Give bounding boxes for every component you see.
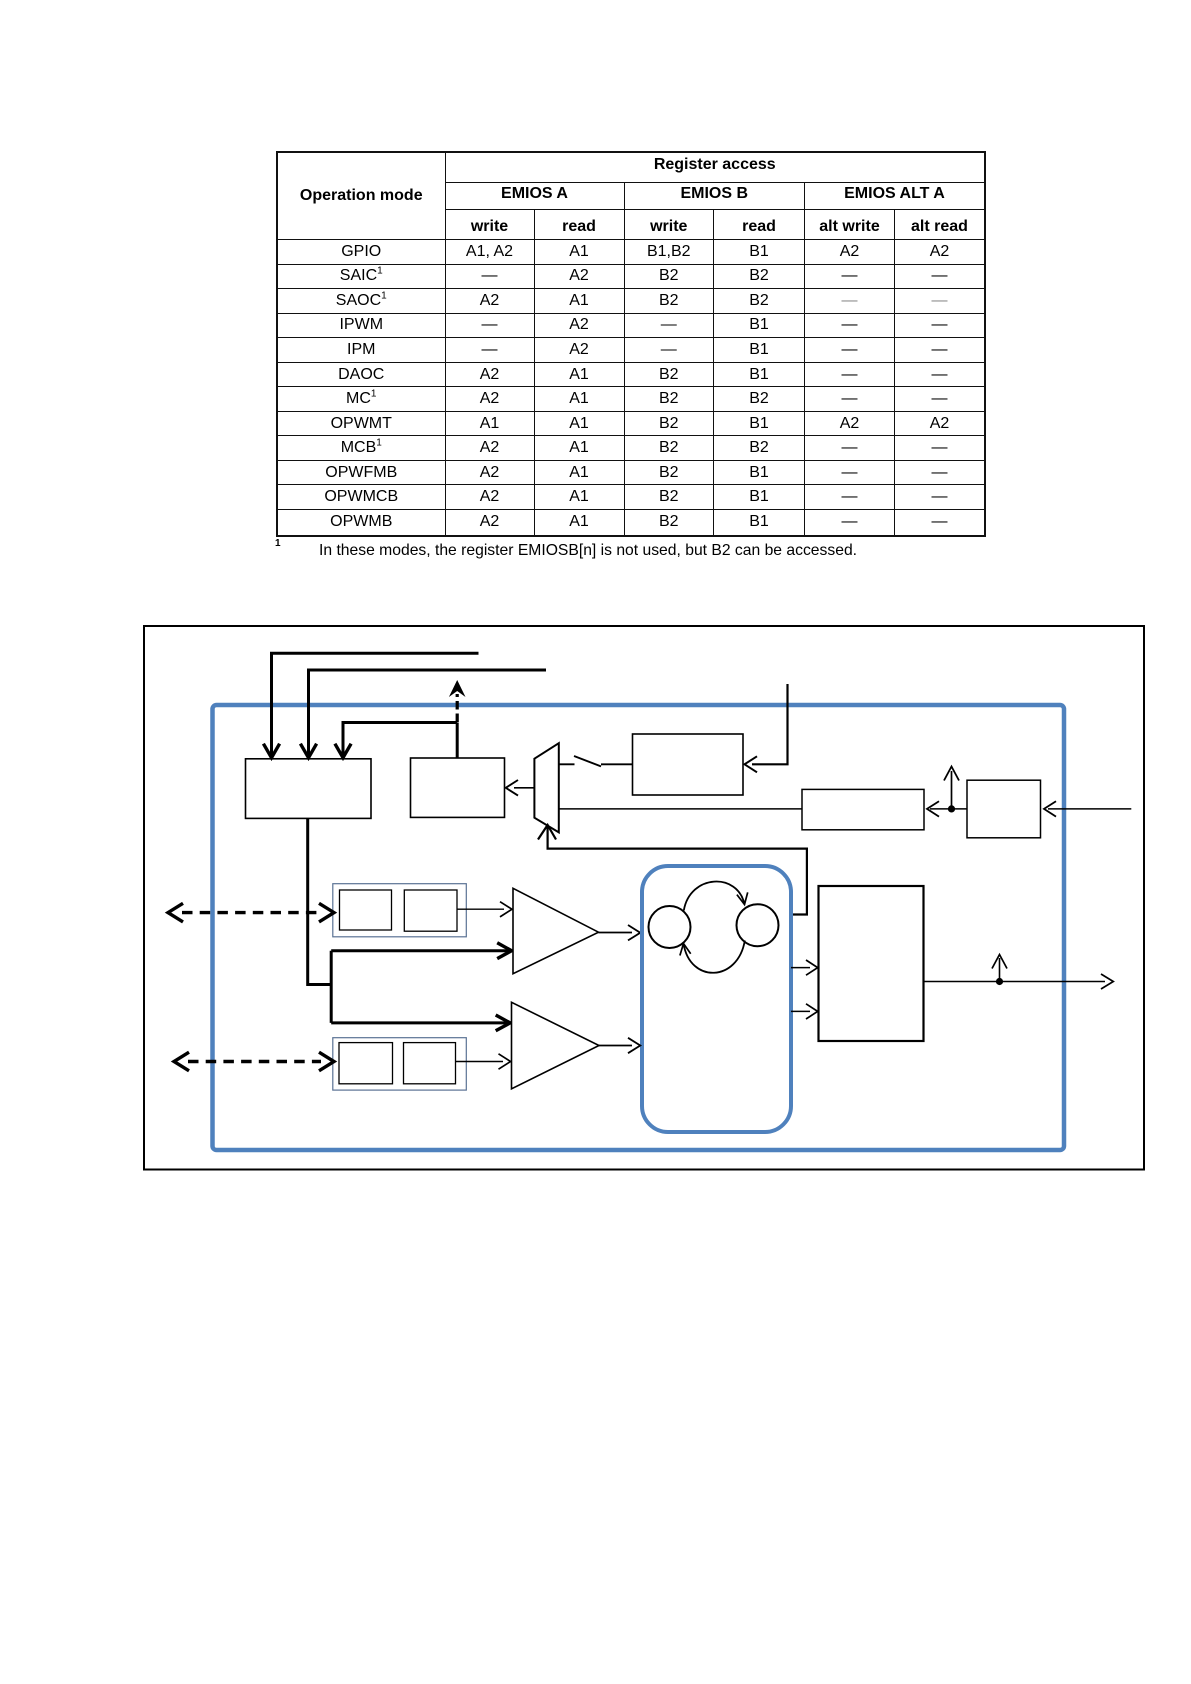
wire: top bus line 2 — [309, 670, 547, 756]
wire: lever to block C — [601, 763, 633, 765]
block A (registers) — [246, 759, 372, 819]
register pair 1 cell A2 — [404, 890, 457, 931]
footnote text — [319, 542, 857, 560]
arrow into comparator 2 lower input — [499, 1054, 511, 1069]
wire: mux output to block B — [514, 787, 534, 789]
arrow into block A (left) — [263, 744, 279, 758]
junction dot — [948, 805, 955, 812]
wire: state box to block F upper — [791, 967, 810, 969]
arrow into block E right edge — [1044, 801, 1056, 816]
register pair 2 outer — [333, 1038, 467, 1090]
register pair 1 outer — [333, 884, 467, 937]
footnote marker 1 — [275, 538, 281, 549]
arrow at output end — [1101, 974, 1113, 989]
register pair 2 cell B2 — [404, 1043, 456, 1084]
switch stub from mux — [559, 763, 575, 765]
arrow into state box (upper) — [628, 925, 640, 940]
arrow into mux bottom — [538, 825, 556, 840]
dashed bidirectional bus 2 — [188, 1060, 321, 1063]
wire: pair1 to comparator 1 — [457, 908, 504, 910]
register pair 2 cell B1 — [339, 1043, 393, 1084]
mux — [534, 743, 558, 832]
arrow into comparator 2 upper input — [496, 1015, 510, 1031]
outer frame — [144, 626, 1144, 1170]
block E — [967, 780, 1041, 838]
transition arc lower — [684, 941, 745, 973]
wire: block E to block D — [930, 808, 967, 810]
state bubble 1 — [649, 906, 691, 948]
wire: state box to block F lower — [791, 1010, 810, 1012]
wire: mux lower input from block D — [559, 808, 802, 810]
arrow into comparator 1 lower input — [497, 943, 511, 959]
arrow into state box (lower) — [628, 1038, 640, 1053]
wire: block F output — [924, 981, 1106, 983]
block F (output logic) — [819, 886, 924, 1041]
state bubble 2 — [737, 904, 779, 946]
wire: state machine feedback to mux select — [548, 827, 807, 915]
arrow up from junction — [951, 771, 953, 809]
wire: comparator 1 output — [599, 932, 633, 934]
junction dot on output — [996, 978, 1003, 985]
arrow into block B right edge — [506, 780, 518, 796]
wire: input from right into block E — [1048, 808, 1131, 810]
block B — [411, 758, 505, 817]
arrow into block C right edge — [745, 756, 758, 772]
comparator 2 — [512, 1002, 600, 1089]
block D — [802, 789, 924, 829]
arrow into block D right edge — [927, 801, 939, 816]
wire: pair2 to comparator 2 — [456, 1061, 504, 1063]
wire: thick bus from block A down — [308, 818, 509, 1023]
register pair 1 cell A1 — [340, 890, 392, 930]
switch lever — [574, 756, 601, 766]
wire: vertical into block C from top — [752, 684, 788, 764]
state machine box — [642, 866, 791, 1132]
wire: vertical into block B top — [456, 723, 459, 759]
comparator 1 — [513, 888, 599, 973]
arrow into block A (right) — [335, 744, 351, 758]
wire: comparator 2 output — [599, 1045, 632, 1047]
table: register access — [276, 151, 986, 537]
wire: inner line to block A — [343, 723, 457, 757]
channel boundary (blue box) — [213, 705, 1065, 1150]
block C (top middle) — [633, 734, 744, 795]
transition arc upper — [684, 882, 745, 911]
wire: top bus line 1 — [272, 653, 479, 756]
arrow up from output junction — [999, 958, 1001, 982]
dashed arrow up from block B — [456, 694, 459, 722]
dashed bidirectional bus 1 — [182, 911, 321, 914]
arrow into comparator 1 upper input — [500, 902, 512, 917]
arrow into block A (middle) — [300, 744, 316, 758]
